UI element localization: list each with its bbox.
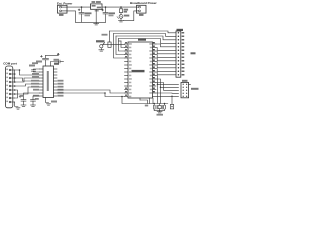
IC3 MCU body — [128, 42, 153, 98]
header JP1 label — [177, 29, 184, 31]
connector X1 Ext Power box — [58, 5, 68, 13]
capacitor C4 top cap — [45, 60, 47, 66]
label GND under regulator — [95, 10, 99, 12]
xtal labels — [145, 105, 148, 107]
junction dots misc — [14, 89, 16, 91]
reset switch S1 — [96, 40, 105, 42]
ISP header JP2 label — [182, 80, 188, 82]
wire ext power gnd down to rail — [67, 11, 76, 22]
wire MCU pin to ISP row5 — [153, 95, 179, 97]
wire tie RTS/CTS — [15, 90, 18, 98]
MCU pin numbers left outside — [125, 42, 127, 96]
capacitor C8 xtal left — [153, 104, 155, 106]
wire DB9 gnd — [15, 102, 18, 107]
wire MCU pin to ISP row3 — [156, 83, 179, 91]
wire MCU pin to ISP row1 — [156, 76, 179, 85]
wire reset net — [103, 44, 124, 46]
regulator IC1 7805 — [91, 4, 103, 9]
wire VCC to MAX232 — [46, 55, 59, 57]
pin 1 pad — [60, 6, 62, 8]
svg-text:COM port: COM port — [3, 62, 17, 66]
capacitor C5 via corner — [51, 62, 59, 67]
LED1 — [120, 13, 122, 15]
header JP1 pin numbers right — [182, 32, 185, 76]
capacitor C7 V- cap — [33, 96, 40, 100]
wire MAX232 R2IN to MCU — [57, 93, 125, 97]
MAX232 left pin labels — [31, 80, 39, 82]
capacitor C3 charge pump cap left — [32, 69, 36, 71]
svg-text:Ext. Power: Ext. Power — [57, 1, 73, 5]
wire MAX232 T2OUT to MCU — [57, 90, 125, 93]
wires MCU right pins to header rows 5-13 — [156, 44, 176, 47]
ISP header pads — [183, 84, 188, 97]
wire ext power + to regulator input — [67, 6, 91, 8]
header JP1 value label — [191, 52, 196, 54]
junction dots on +5V rail — [81, 6, 83, 8]
wire DB9 pin to MAX232 — [15, 87, 40, 94]
crystal Q1 — [159, 104, 161, 106]
wire breadboard gnd return — [124, 11, 137, 21]
wire ISP gnd down — [171, 96, 173, 104]
ground symbol below rail — [94, 23, 99, 25]
xtal ground rail — [154, 109, 164, 111]
wire DB9 RxD to MAX232 — [15, 84, 40, 86]
wire DB9 pin1 to MAX232 R1IN — [15, 70, 40, 75]
label X2 — [139, 14, 144, 16]
header JP1 pads — [178, 32, 180, 76]
MAX232 right pins — [54, 69, 58, 96]
IC2 MAX232 body — [43, 66, 54, 98]
DB9 pins — [6, 69, 14, 103]
wire DB9 pin4 to MAX232 — [15, 78, 40, 82]
rotated name inside MAX232 — [47, 71, 49, 91]
ground rail — [76, 21, 106, 23]
wire MCU pin to ISP row4 — [156, 92, 179, 94]
resistor R2 pull-up — [108, 42, 111, 47]
label R2 value — [102, 34, 108, 36]
resistor R1 LED resistor — [120, 7, 122, 9]
ISP header JP2 body — [181, 83, 189, 98]
MCU name text — [132, 70, 145, 72]
MCU pin names inside right — [149, 43, 152, 93]
wire DB9 TxD to MAX232 — [15, 78, 40, 81]
MAX232 right pin labels — [58, 80, 64, 82]
svg-text:Breadboard Power: Breadboard Power — [130, 1, 158, 5]
ISP label SPI-ISP — [191, 88, 199, 90]
label X1 — [59, 14, 64, 16]
pin 2 pad — [60, 10, 62, 12]
MCU pin names inside left — [129, 43, 132, 97]
wire crystal top rail — [122, 97, 168, 104]
wire tie DCD/DTR/DSR — [14, 70, 16, 82]
wire regulator output rail — [102, 6, 137, 8]
ground symbol LED / breadboard gnd — [120, 18, 122, 20]
small box right of xtal — [170, 104, 173, 109]
connector X2 Breadboard Power box — [137, 5, 147, 13]
wire regulator gnd pin — [95, 9, 97, 22]
MCU right pins — [153, 44, 157, 93]
header JP1 body — [176, 31, 181, 77]
MAX232 left pins — [40, 69, 44, 96]
capacitor C6 V+ cap — [24, 93, 40, 100]
capacitor C1 input cap — [81, 7, 83, 12]
wire MCU pin to ISP row2 — [156, 79, 179, 87]
bus wires over MCU to header rows1-4 — [110, 31, 177, 33]
ISP right stub — [189, 83, 191, 85]
MCU left pins — [125, 44, 129, 97]
wire vertical to crystal rail B — [160, 87, 162, 103]
wire MCU XTAL bottom pins — [139, 98, 141, 100]
MAX232 gnd — [46, 98, 49, 103]
bus verticals to MCU left pins — [114, 34, 125, 59]
capacitor C9 xtal right — [164, 104, 166, 106]
connector X3 DB9 COM port — [6, 66, 13, 108]
MCU pin numbers right outside — [153, 42, 155, 92]
wire vertical to crystal rail A — [157, 84, 159, 103]
capacitor C2 output cap — [105, 7, 107, 12]
